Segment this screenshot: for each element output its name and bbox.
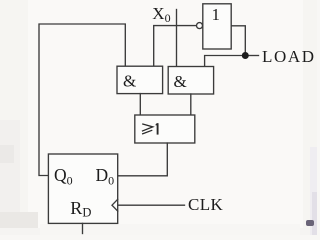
- wire LOAD node to right AND input: [205, 56, 242, 67]
- wire CLK: [118, 204, 185, 206]
- svg-text:&: &: [174, 72, 187, 91]
- clock dynamic input chevron: [112, 199, 118, 211]
- label D0: [96, 165, 115, 187]
- junction dot LOAD node: [242, 52, 249, 59]
- wire Q0 feedback (FF output to left AND input): [39, 24, 125, 176]
- AND gate left box: [117, 66, 163, 93]
- wire LOAD node to label: [249, 55, 259, 57]
- wire X0 input (vertical into right AND): [176, 10, 178, 67]
- flip-flop box: [48, 154, 117, 223]
- label >=1 (OR): [142, 123, 158, 134]
- inverter U1 output bubble: [197, 23, 203, 29]
- label LOAD: [262, 47, 316, 66]
- svg-text:CLK: CLK: [188, 195, 224, 214]
- wire inverter output to left AND input: [154, 26, 197, 67]
- wire left AND output to OR: [139, 94, 141, 115]
- label & (right AND): [174, 72, 187, 91]
- label RD: [70, 198, 91, 220]
- svg-text:LOAD: LOAD: [262, 47, 316, 66]
- label & (left AND): [123, 71, 136, 90]
- wire FF bottom output: [82, 223, 84, 233]
- svg-text:&: &: [123, 71, 136, 90]
- OR gate box: [135, 115, 195, 143]
- label CLK: [188, 195, 224, 214]
- label X0: [152, 4, 170, 25]
- svg-text:1: 1: [212, 5, 221, 24]
- label Q0: [54, 165, 73, 187]
- wire right AND output to OR: [190, 94, 192, 115]
- label 1 (inverter): [212, 5, 221, 24]
- wire OR output to D0 input: [118, 143, 167, 176]
- AND gate right box: [168, 67, 213, 95]
- wire LOAD to inverter input: [231, 26, 245, 53]
- inverter U1 box: [203, 4, 231, 49]
